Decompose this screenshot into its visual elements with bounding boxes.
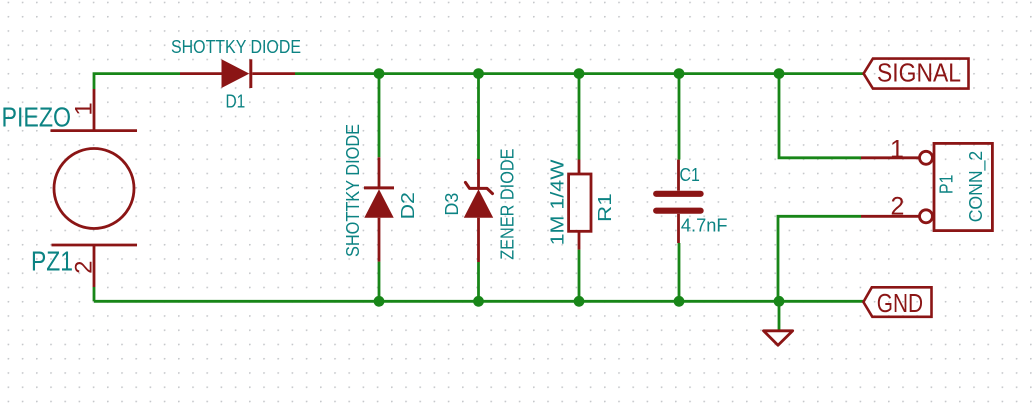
node: junction bottom D3 (473, 296, 484, 307)
svg-text:CONN_2: CONN_2 (966, 151, 987, 223)
node: junction bottom D2 (374, 296, 385, 307)
svg-text:ZENER DIODE: ZENER DIODE (497, 149, 517, 260)
node: junction bottom ground (774, 296, 785, 307)
resistor R1 (569, 160, 591, 250)
svg-text:PZ1: PZ1 (31, 246, 73, 277)
connector pin stub 1 (861, 156, 920, 159)
wire: R1 lower vertical (578, 250, 581, 302)
connector pin stub 2 (861, 215, 920, 218)
svg-text:1M 1/4W: 1M 1/4W (547, 159, 567, 245)
capacitor C1 (656, 160, 700, 243)
svg-text:SHOTTKY DIODE: SHOTTKY DIODE (343, 124, 363, 257)
svg-text:P1: P1 (936, 175, 956, 194)
node: junction top D3 (473, 68, 484, 79)
wire: ground bus to ground symbol (778, 301, 781, 331)
net label GND (863, 287, 931, 318)
diode D2 (364, 157, 394, 261)
svg-text:GND: GND (877, 288, 923, 318)
node: junction top SIGNAL drop (774, 68, 785, 79)
wire: bottom ground bus (94, 300, 863, 303)
node: junction top C1 (674, 68, 685, 79)
piezo PZ1 (51, 89, 138, 287)
svg-text:R1: R1 (595, 193, 615, 222)
wire: D3 lower vertical (477, 262, 480, 301)
wire: D2 upper vertical (378, 74, 381, 158)
node: junction bottom R1 (574, 296, 585, 307)
connector P1 body (920, 143, 993, 230)
wire: C1 lower vertical (678, 243, 681, 301)
svg-text:PIEZO: PIEZO (2, 102, 72, 133)
node: junction bottom C1 (674, 296, 685, 307)
wire: R1 upper vertical (578, 74, 581, 160)
wire: piezo pin2 to bottom bus (93, 287, 96, 301)
wire: top net down to connector pin 1 (779, 74, 861, 158)
wire: D2 lower vertical (378, 262, 381, 302)
wire: D3 upper vertical (477, 74, 480, 159)
wire: connector pin 2 to ground bus (778, 216, 861, 301)
svg-text:1: 1 (71, 102, 98, 115)
wire: C1 upper vertical (678, 74, 681, 160)
wire: top net from D1 cathode to SIGNAL label (295, 72, 864, 75)
node: junction top D2 (374, 68, 385, 79)
svg-text:D3: D3 (442, 193, 462, 216)
svg-text:4.7nF: 4.7nF (681, 215, 728, 235)
diode D1 (180, 59, 295, 88)
ground symbol (764, 331, 793, 346)
svg-text:2: 2 (891, 192, 905, 220)
net label SIGNAL (864, 58, 969, 89)
svg-text:SHOTTKY DIODE: SHOTTKY DIODE (171, 37, 301, 57)
svg-text:C1: C1 (680, 165, 700, 185)
svg-text:D2: D2 (398, 192, 418, 219)
svg-text:SIGNAL: SIGNAL (877, 58, 961, 88)
wire: piezo pin1 to top bus corner and left segment of top net (94, 74, 180, 89)
svg-text:2: 2 (71, 261, 98, 274)
svg-text:D1: D1 (226, 91, 246, 111)
svg-text:1: 1 (890, 135, 904, 163)
node: junction top R1 (574, 68, 585, 79)
zener diode D3 (464, 159, 493, 262)
